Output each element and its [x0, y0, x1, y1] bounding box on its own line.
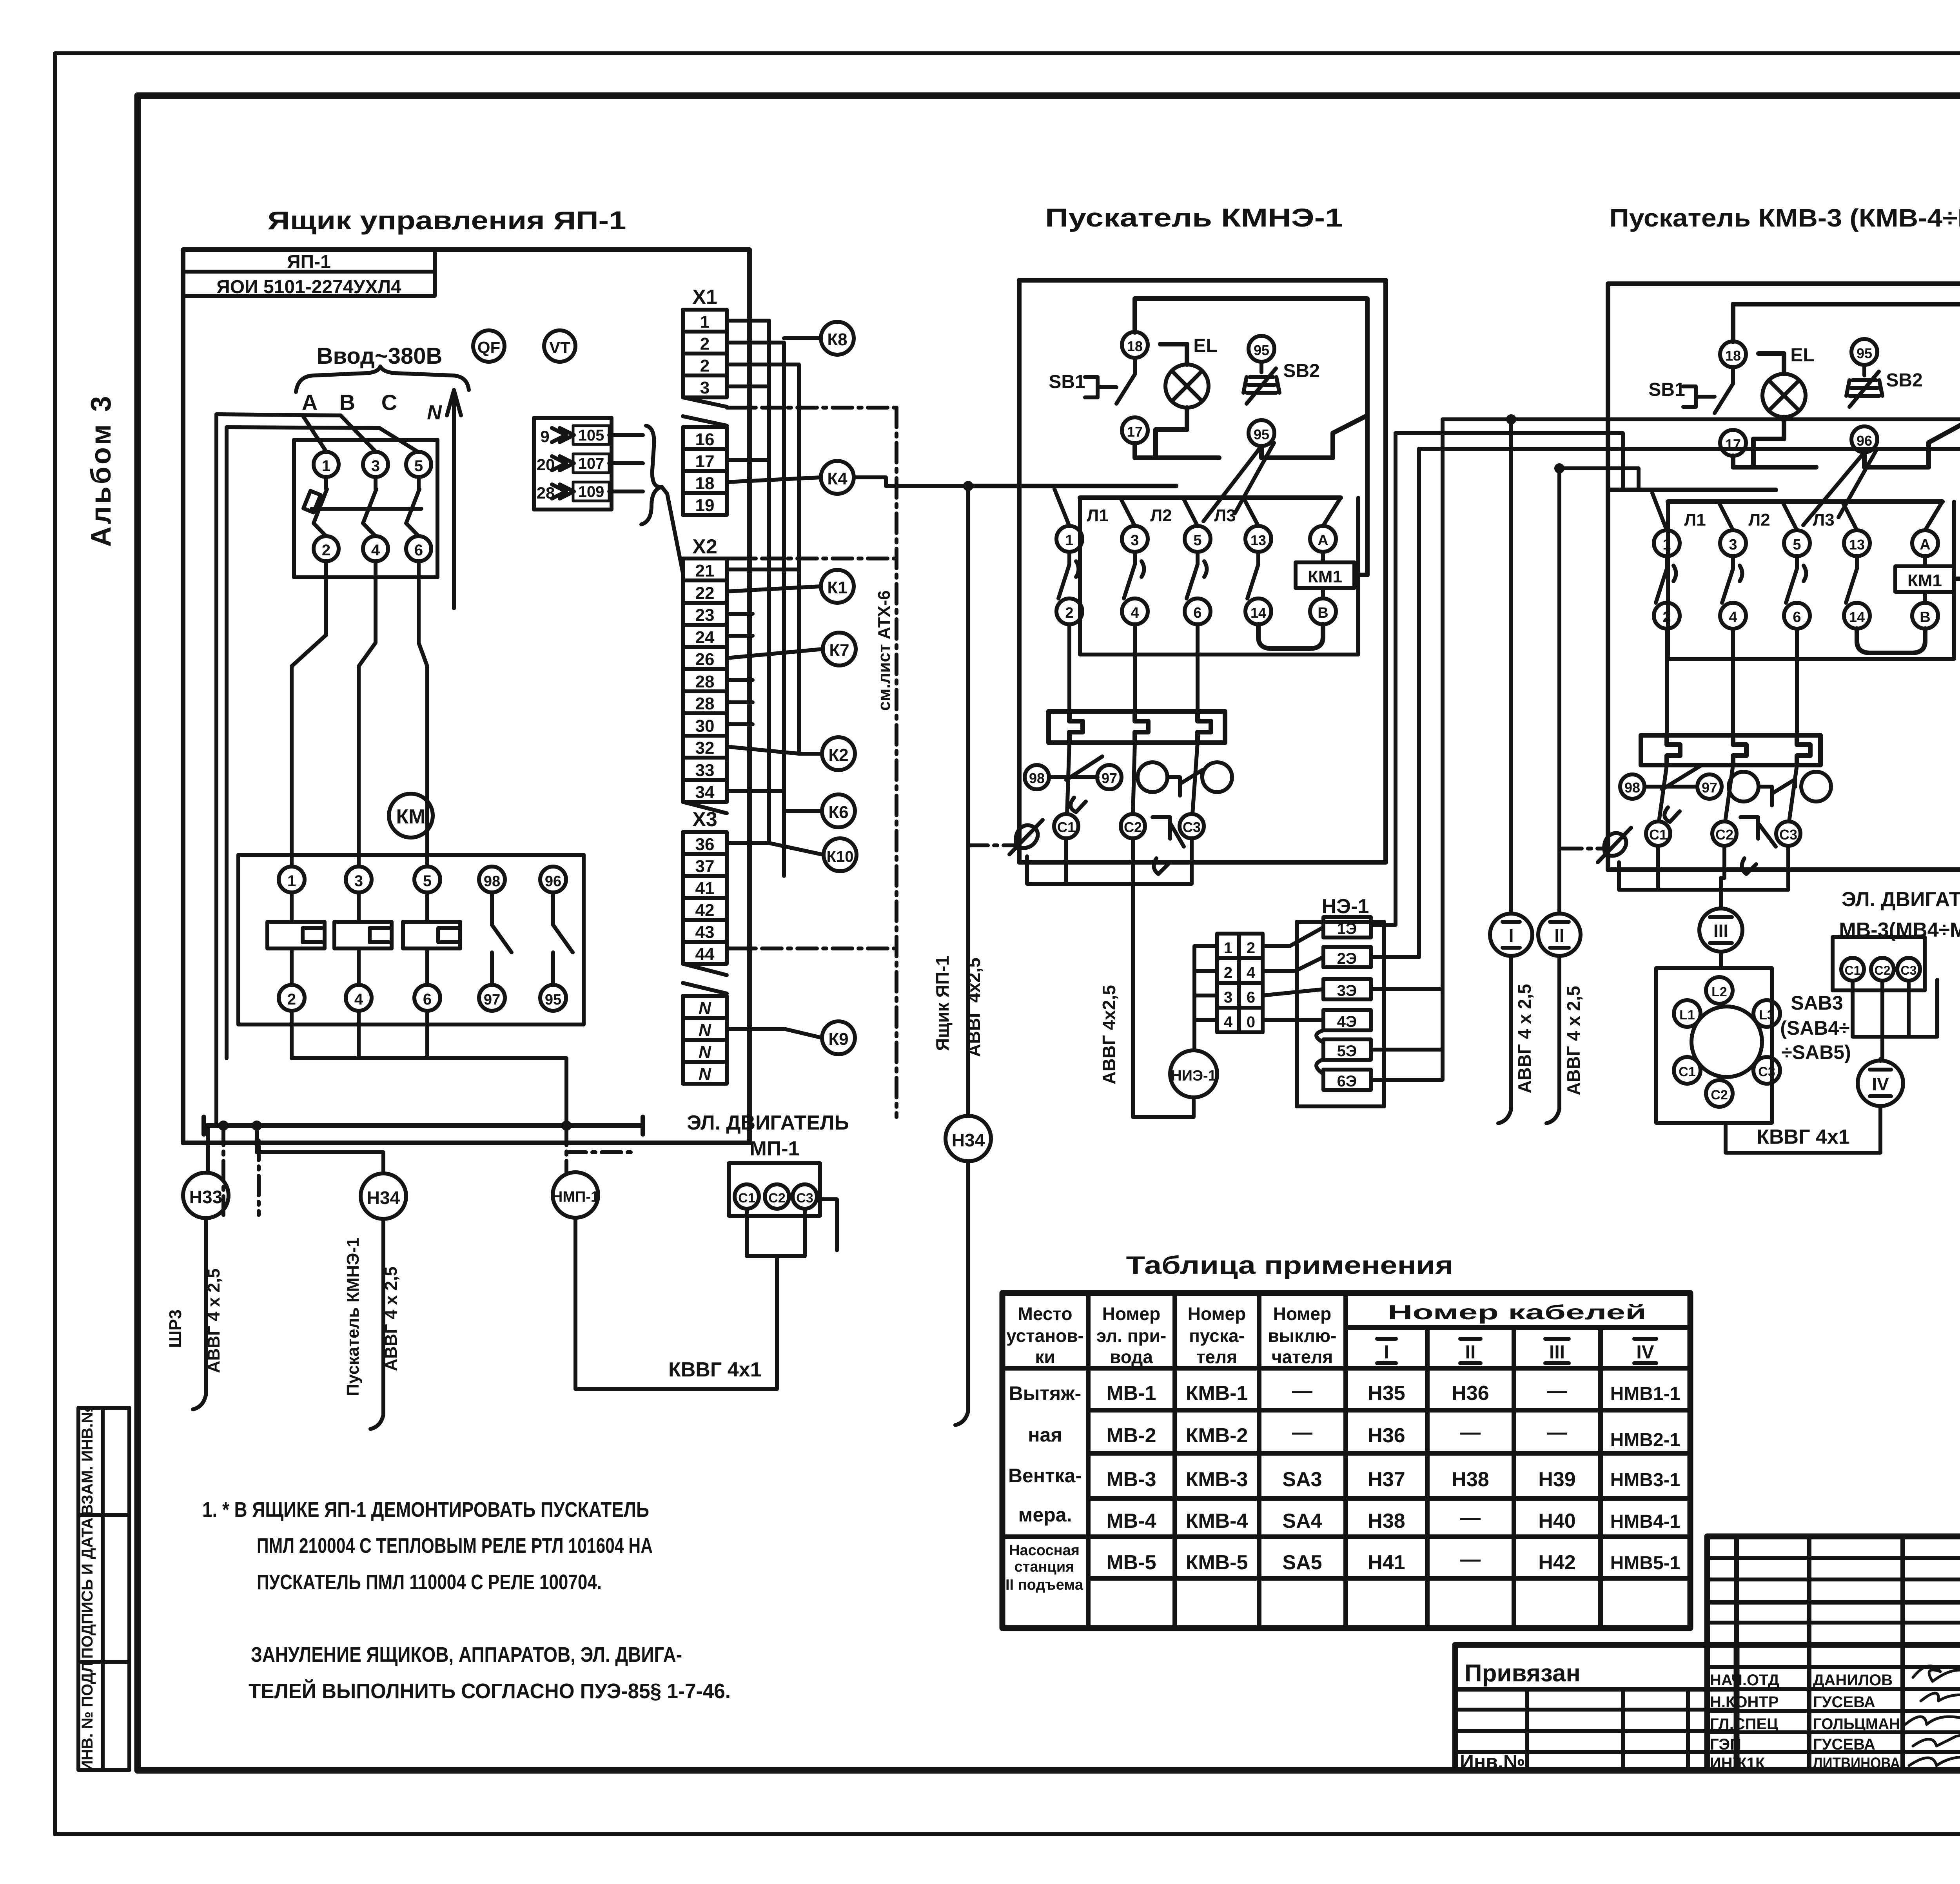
svg-text:станция: станция	[1014, 1559, 1074, 1575]
svg-text:А: А	[302, 390, 318, 415]
QF feed diagonal C	[379, 428, 419, 452]
thermal relay heaters kmv3	[1641, 735, 1820, 765]
svg-text:НМП-1: НМП-1	[552, 1189, 599, 1205]
svg-text:К1: К1	[827, 578, 847, 597]
cable node H34	[361, 1173, 406, 1219]
wire riser bundle verticals	[769, 321, 799, 876]
svg-text:4: 4	[1224, 1014, 1233, 1031]
svg-text:Х2: Х2	[692, 535, 717, 558]
node K4	[821, 461, 854, 494]
svg-text:÷SAB5): ÷SAB5)	[1781, 1041, 1851, 1063]
svg-text:6Э: 6Э	[1337, 1073, 1357, 1090]
svg-text:3: 3	[700, 378, 710, 397]
svg-text:95: 95	[545, 992, 561, 1008]
svg-text:КМВ-5: КМВ-5	[1186, 1551, 1248, 1574]
svg-text:ЭЛ. ДВИГАТЕЛЬ: ЭЛ. ДВИГАТЕЛЬ	[1842, 888, 1960, 911]
svg-text:С: С	[381, 390, 397, 415]
wire control top run kmv3	[1733, 304, 1960, 579]
lamp EL kmv3	[1762, 374, 1806, 417]
svg-text:АВВГ 4х2,5: АВВГ 4х2,5	[964, 957, 984, 1057]
svg-text:(SAB4÷: (SAB4÷	[1780, 1017, 1849, 1039]
wire H34 drop	[370, 1219, 383, 1429]
svg-text:ГЭП: ГЭП	[1710, 1736, 1741, 1753]
svg-text:ГУСЕВА: ГУСЕВА	[1813, 1736, 1875, 1753]
svg-text:14: 14	[1250, 605, 1266, 621]
wire H34 riser	[966, 486, 970, 1116]
main terminal 14 kmv3	[1844, 603, 1870, 629]
node K6	[822, 794, 855, 827]
svg-text:эл. при-: эл. при-	[1096, 1326, 1167, 1346]
svg-text:Л3: Л3	[1813, 510, 1834, 529]
svg-text:Н42: Н42	[1538, 1551, 1575, 1574]
interface block box	[534, 418, 612, 510]
wire thermal to C2	[1133, 743, 1135, 814]
wire MV3 C2 to IV	[1880, 981, 1882, 1061]
svg-text:НМВ4-1: НМВ4-1	[1610, 1511, 1681, 1532]
svg-text:1: 1	[1224, 939, 1232, 957]
titleblock vertical lines	[1737, 1536, 1960, 1771]
svg-text:ШР3: ШР3	[166, 1309, 185, 1348]
wire X2 upper stubs	[727, 614, 753, 724]
attach grid rows	[1455, 1710, 1737, 1752]
KM terminal 95	[540, 985, 566, 1011]
svg-text:36: 36	[695, 835, 715, 854]
node K7	[823, 633, 856, 665]
coil KM1 box kmv3	[1895, 566, 1954, 592]
signature scribble 4	[1913, 1735, 1960, 1746]
svg-text:МВ-3: МВ-3	[1106, 1468, 1156, 1491]
svg-text:Л1: Л1	[1087, 506, 1108, 525]
svg-text:II: II	[1554, 925, 1564, 946]
wire NE-1 riser a	[1371, 433, 1396, 925]
table header subline	[1346, 1325, 1690, 1330]
svg-text:SB1: SB1	[1648, 379, 1685, 400]
svg-text:2: 2	[1065, 605, 1073, 621]
svg-text:Вытяж-: Вытяж-	[1009, 1382, 1082, 1404]
svg-text:ная: ная	[1028, 1424, 1062, 1446]
pb terminal 95 bottom	[1249, 420, 1274, 446]
svg-text:К6: К6	[828, 803, 848, 822]
svg-text:13: 13	[1849, 537, 1865, 553]
svg-text:Насосная: Насосная	[1009, 1542, 1080, 1559]
terminal C2 kmv3	[1712, 821, 1737, 846]
neutral arrow N	[447, 390, 461, 608]
svg-text:98: 98	[1624, 780, 1640, 796]
svg-text:Место: Место	[1018, 1304, 1073, 1324]
connector table box	[1217, 934, 1263, 1032]
wire 4E-5E-6E jumpers	[1316, 1030, 1323, 1074]
wire X1 rows to riser bundle	[727, 321, 799, 386]
node K8	[821, 322, 854, 355]
svg-text:Н35: Н35	[1368, 1382, 1405, 1405]
svg-text:ВЗАМ. ИНВ.№: ВЗАМ. ИНВ.№	[79, 1406, 96, 1516]
main terminal 3	[1122, 526, 1148, 552]
wire to K10	[727, 843, 824, 855]
svg-text:установ-: установ-	[1006, 1326, 1084, 1346]
svg-text:КМВ-3: КМВ-3	[1186, 1468, 1248, 1491]
svg-text:II: II	[1465, 1342, 1476, 1363]
main terminal 2	[1056, 598, 1082, 624]
svg-text:6: 6	[1193, 605, 1201, 621]
KM main contact pole2	[334, 892, 392, 985]
svg-text:К10: К10	[827, 848, 854, 865]
node K10	[824, 838, 857, 871]
cable node IV kmv3	[1858, 1061, 1903, 1106]
svg-text:21: 21	[695, 561, 715, 580]
svg-text:IV: IV	[1872, 1074, 1889, 1094]
svg-text:—: —	[1460, 1548, 1481, 1571]
terminal C2	[1121, 814, 1145, 838]
svg-text:мера.: мера.	[1018, 1504, 1072, 1526]
svg-text:24: 24	[695, 628, 715, 647]
contactor contact pole2	[1124, 552, 1144, 598]
test button circle right	[1202, 762, 1232, 792]
SAB terminal C1	[1674, 1057, 1700, 1084]
test button left kmv3	[1729, 772, 1759, 801]
terminal strip X3 cells	[683, 832, 727, 964]
wire to K2	[727, 747, 822, 754]
svg-text:С3: С3	[1758, 1064, 1775, 1079]
svg-text:ПОДПИСЬ И ДАТА: ПОДПИСЬ И ДАТА	[79, 1518, 96, 1659]
svg-text:Н34: Н34	[367, 1188, 400, 1208]
wire supply risers	[216, 414, 227, 1126]
main terminal 6 kmv3	[1784, 603, 1810, 629]
svg-text:пуска-: пуска-	[1189, 1326, 1245, 1346]
svg-text:КМ: КМ	[396, 805, 425, 828]
terminal strip X1 upper cells	[683, 310, 727, 397]
attach grid hline	[1455, 1687, 1737, 1692]
svg-text:ИНВ. № ПОДЛ: ИНВ. № ПОДЛ	[79, 1662, 96, 1772]
wire connector to 1E	[1263, 927, 1323, 946]
terminal 2E	[1323, 947, 1371, 967]
svg-text:Пускатель КМВ-3 (КМВ-4÷КМВ-5): Пускатель КМВ-3 (КМВ-4÷КМВ-5)	[1610, 204, 1960, 232]
application table frame	[1002, 1293, 1690, 1628]
wire coil A stub	[1321, 552, 1325, 598]
aux contact C2-C3	[1133, 817, 1184, 874]
svg-text:17: 17	[695, 452, 715, 471]
svg-text:N: N	[699, 1043, 711, 1062]
wire lamp branch	[1156, 344, 1187, 456]
interface bracket	[641, 426, 662, 524]
svg-text:Н.КОНТР: Н.КОНТР	[1710, 1694, 1779, 1711]
test contact kmv3	[1759, 779, 1795, 805]
svg-text:выклю-: выклю-	[1268, 1326, 1337, 1346]
svg-text:3: 3	[354, 872, 363, 890]
svg-text:ПМЛ 210004 С ТЕПЛОВЫМ РЕЛЕ Р: ПМЛ 210004 С ТЕПЛОВЫМ РЕЛЕ РТЛ 101604 НА	[257, 1534, 653, 1558]
svg-text:95: 95	[1857, 345, 1872, 361]
wire K4 to KMNE feed	[854, 477, 968, 486]
svg-text:2: 2	[287, 991, 296, 1008]
wire feed bus kmv3	[1608, 490, 1942, 502]
QF pole terminal 5	[406, 452, 431, 477]
contact pole4 kmv3	[1846, 556, 1857, 603]
wire III to SAB square	[1719, 952, 1723, 968]
cable node I kmv3	[1490, 914, 1532, 956]
svg-text:Н34: Н34	[952, 1130, 985, 1150]
wire distribution run y1105	[1396, 433, 1623, 490]
svg-text:МВ-1: МВ-1	[1106, 1382, 1156, 1405]
wire MP-1 loop dashdot	[835, 1231, 839, 1256]
coil terminal B	[1310, 598, 1336, 624]
wire interface to X2	[662, 487, 683, 573]
contactor coil KM1 box	[1296, 562, 1354, 588]
svg-text:вода: вода	[1110, 1347, 1153, 1367]
contact pole1 kmv3	[1656, 556, 1676, 603]
terminal strip X1 lower cells	[683, 427, 727, 515]
svg-text:22: 22	[695, 584, 715, 603]
wire MV3 terminal loop	[1853, 980, 1937, 1037]
contactor contact pole1	[1058, 552, 1079, 598]
titleblock main split	[1455, 1642, 1960, 1648]
cable node III kmv3	[1699, 908, 1742, 952]
svg-text:ки: ки	[1035, 1347, 1055, 1367]
wire thermal to C1	[1067, 743, 1069, 814]
svg-text:К7: К7	[829, 641, 849, 660]
svg-text:Н36: Н36	[1368, 1424, 1405, 1447]
wire outputs down kmv3	[1667, 629, 1797, 735]
wire to K8	[784, 336, 821, 340]
svg-text:6: 6	[1793, 609, 1801, 626]
svg-text:Л2: Л2	[1748, 510, 1770, 529]
svg-text:С3: С3	[796, 1191, 813, 1206]
svg-text:—: —	[1460, 1507, 1481, 1529]
interface row wires	[609, 435, 643, 491]
svg-text:Н38: Н38	[1368, 1510, 1405, 1532]
svg-text:ГУСЕВА: ГУСЕВА	[1813, 1694, 1875, 1711]
pb terminal 17	[1122, 417, 1148, 443]
KM terminal 96	[540, 867, 566, 892]
wire 95 diagonal to contact row	[1203, 443, 1274, 521]
titleblock revision rows	[1707, 1558, 1960, 1623]
coil terminal B kmv3	[1912, 603, 1938, 629]
svg-text:Ящик управления ЯП-1: Ящик управления ЯП-1	[268, 206, 626, 235]
svg-text:2: 2	[1247, 939, 1255, 957]
svg-text:16: 16	[695, 430, 715, 449]
wire feed bus KMNE	[968, 486, 1341, 498]
svg-text:С2: С2	[1124, 819, 1142, 835]
svg-text:МВ-2: МВ-2	[1106, 1424, 1156, 1447]
svg-text:19: 19	[695, 496, 715, 515]
SAB terminal C3	[1753, 1057, 1780, 1084]
svg-text:97: 97	[1702, 780, 1717, 796]
cabinet label box row 1	[183, 250, 435, 272]
svg-text:АВВГ 4 х 2,5: АВВГ 4 х 2,5	[1514, 984, 1535, 1093]
titleblock row under TPR	[1707, 1600, 1960, 1605]
KM terminal 98	[479, 867, 505, 892]
svg-text:—: —	[1547, 1380, 1567, 1402]
motor MV3 terminal C1	[1841, 958, 1864, 981]
svg-text:L3: L3	[1759, 1008, 1775, 1023]
svg-text:42: 42	[695, 901, 715, 920]
svg-text:VT: VT	[549, 338, 570, 357]
svg-text:С1: С1	[1057, 819, 1075, 835]
margin stamp row line 2	[78, 1660, 129, 1664]
wire control bottom run kmv3	[1733, 423, 1960, 467]
svg-text:33: 33	[695, 761, 715, 780]
svg-text:КВВГ 4х1: КВВГ 4х1	[668, 1358, 762, 1381]
svg-text:III: III	[1713, 921, 1728, 941]
svg-text:QF: QF	[477, 338, 500, 357]
svg-text:4: 4	[354, 991, 363, 1008]
KM aux contact 96-95	[553, 892, 573, 985]
main terminal 5 kmv3	[1784, 530, 1810, 556]
svg-text:4: 4	[1729, 609, 1737, 626]
svg-text:26: 26	[695, 650, 715, 669]
svg-text:IV: IV	[1636, 1342, 1654, 1363]
cable node NIE-1	[1170, 1050, 1217, 1097]
svg-text:С3: С3	[1779, 827, 1797, 843]
svg-text:НМВ3-1: НМВ3-1	[1610, 1470, 1681, 1491]
pe symbol KMNE	[1009, 820, 1043, 854]
cabinet YAP-1 outline	[183, 250, 750, 1143]
svg-text:5: 5	[1193, 532, 1201, 549]
svg-text:КМ1: КМ1	[1308, 567, 1342, 586]
motor MV3 terminal C2	[1871, 958, 1894, 981]
main terminal 4 kmv3	[1720, 603, 1746, 629]
wire 96 diagonal kmv3	[1803, 449, 1877, 525]
svg-text:14: 14	[1849, 609, 1865, 625]
main terminal 13 kmv3	[1844, 530, 1870, 556]
svg-text:ЗАНУЛЕНИЕ ЯЩИКОВ, АППАРАТОВ,: ЗАНУЛЕНИЕ ЯЩИКОВ, АППАРАТОВ, ЭЛ. ДВИГА-	[251, 1643, 682, 1666]
svg-text:Н38: Н38	[1452, 1468, 1489, 1491]
aux contact 98-97	[1049, 756, 1102, 812]
svg-text:Ящик ЯП-1: Ящик ЯП-1	[932, 956, 953, 1051]
svg-text:107: 107	[578, 455, 604, 472]
svg-text:НМВ5-1: НМВ5-1	[1610, 1553, 1681, 1574]
svg-text:ГОЛЬЦМАН: ГОЛЬЦМАН	[1813, 1715, 1900, 1733]
main terminal 4	[1122, 598, 1148, 624]
svg-text:С3: С3	[1183, 819, 1201, 835]
svg-text:4: 4	[1131, 605, 1139, 621]
svg-text:В: В	[1318, 605, 1328, 621]
svg-text:С1: С1	[1845, 963, 1861, 977]
svg-text:АВВГ 4 х 2,5: АВВГ 4 х 2,5	[381, 1266, 401, 1371]
svg-text:37: 37	[695, 857, 715, 876]
neutral bus bottom	[204, 1117, 643, 1134]
svg-text:30: 30	[695, 716, 715, 736]
svg-text:SAB3: SAB3	[1791, 992, 1843, 1014]
terminal 4E	[1323, 1010, 1371, 1030]
signature scribble 5	[1909, 1748, 1960, 1766]
dash-dot stub X2	[727, 557, 897, 560]
svg-text:6: 6	[423, 991, 432, 1008]
svg-text:С1: С1	[738, 1191, 755, 1206]
svg-text:L1: L1	[1679, 1008, 1695, 1023]
svg-text:N: N	[699, 1021, 711, 1040]
svg-text:АВВГ 4 х 2,5: АВВГ 4 х 2,5	[1563, 986, 1584, 1095]
wire bus dashdot drops	[223, 1126, 631, 1215]
pb terminal 96 kmv3	[1851, 426, 1877, 452]
bus junction dots	[218, 1121, 572, 1131]
svg-text:Номер: Номер	[1273, 1304, 1331, 1324]
contact row feed diagonals	[1054, 489, 1341, 526]
wire to K4	[727, 460, 821, 482]
aux terminal 97	[1097, 765, 1122, 789]
contact feed diagonals kmv3	[1652, 493, 1942, 530]
terminal C3 kmv3	[1776, 821, 1800, 846]
svg-text:Л1: Л1	[1684, 510, 1706, 529]
svg-text:34: 34	[695, 783, 715, 802]
terminal 3E	[1323, 979, 1371, 999]
main terminal 1 kmv3	[1654, 530, 1680, 556]
wire connector to 3E	[1263, 989, 1323, 995]
svg-text:см.лист АТХ-6: см.лист АТХ-6	[875, 590, 894, 711]
wire 14-B loop	[1258, 624, 1323, 649]
dash-dot pe feed kmv3	[1562, 847, 1603, 850]
svg-text:Номер: Номер	[1102, 1304, 1160, 1324]
wire distribution run y1070	[1443, 419, 1960, 486]
svg-text:К4: К4	[827, 469, 848, 488]
signature scribble 2	[1921, 1689, 1960, 1701]
wire MP-1 terminal loop	[747, 1199, 837, 1256]
pb terminal 18 kmv3	[1720, 341, 1746, 367]
svg-text:5: 5	[423, 872, 432, 890]
svg-text:2Э: 2Э	[1337, 950, 1357, 967]
KM main contact pole3	[403, 892, 460, 985]
main titleblock frame	[1707, 1536, 1960, 1771]
svg-text:3: 3	[1729, 537, 1737, 553]
svg-text:2: 2	[322, 542, 330, 559]
dash-dot stub X1	[727, 406, 897, 410]
svg-text:I: I	[1384, 1342, 1389, 1363]
svg-text:А: А	[1318, 532, 1328, 549]
svg-text:17: 17	[1127, 424, 1143, 440]
svg-text:44: 44	[695, 945, 715, 964]
SAB terminal C2	[1706, 1080, 1733, 1107]
strip X3 break mark	[683, 964, 727, 994]
wire H33 drop	[193, 1218, 206, 1409]
terminal 5E	[1323, 1039, 1371, 1060]
svg-text:N: N	[699, 999, 711, 1018]
svg-text:МВ-5: МВ-5	[1106, 1551, 1156, 1574]
svg-text:Пускатель КМНЭ-1: Пускатель КМНЭ-1	[1045, 203, 1343, 232]
svg-text:А: А	[1920, 537, 1930, 553]
svg-text:SB2: SB2	[1283, 361, 1319, 381]
svg-text:В: В	[1920, 609, 1930, 626]
main terminal 5	[1185, 526, 1210, 552]
svg-text:N: N	[699, 1064, 711, 1084]
motor MV-3 terminal box	[1833, 937, 1925, 990]
terminal C1 kmv3	[1646, 821, 1670, 846]
svg-text:28: 28	[695, 694, 715, 713]
svg-text:6: 6	[1247, 989, 1255, 1006]
svg-text:ДАНИЛОВ: ДАНИЛОВ	[1813, 1672, 1893, 1689]
terminal 6E	[1323, 1070, 1371, 1090]
svg-text:Н41: Н41	[1368, 1551, 1405, 1574]
svg-text:Инв.№: Инв.№	[1460, 1751, 1525, 1773]
QF feed diagonal B	[341, 415, 376, 452]
wire QF out pole1 to KM	[292, 561, 326, 867]
motor MP-1 terminal box	[729, 1163, 820, 1216]
svg-text:С2: С2	[768, 1191, 785, 1206]
svg-text:EL: EL	[1193, 335, 1217, 356]
svg-text:96: 96	[1857, 433, 1872, 449]
svg-text:98: 98	[1029, 770, 1045, 786]
svg-text:2: 2	[700, 356, 710, 375]
wire lamp branch kmv3	[1753, 354, 1784, 466]
tag circle VT	[544, 330, 575, 362]
svg-text:С3: С3	[1901, 963, 1917, 977]
QF contact pole 3	[406, 477, 419, 536]
dash-dot stub X3	[727, 947, 897, 950]
wire H34 drop with end	[955, 1161, 968, 1425]
contact area inner box	[1080, 498, 1358, 655]
svg-text:Номер: Номер	[1188, 1304, 1246, 1324]
svg-text:—: —	[1292, 1380, 1312, 1402]
svg-text:НАЧ.ОТД: НАЧ.ОТД	[1710, 1672, 1779, 1689]
svg-text:13: 13	[1250, 532, 1266, 548]
wire connector to 4E	[1263, 1018, 1323, 1022]
